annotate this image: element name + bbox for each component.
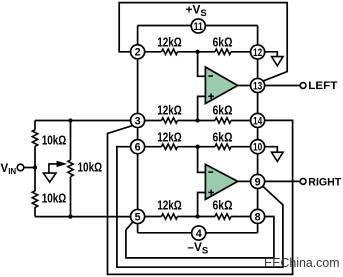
resistor R10 10k lower divider [32, 191, 66, 208]
wire: U2 output to pin 9 [238, 180, 258, 182]
svg-text:10kΩ: 10kΩ [42, 192, 67, 206]
wire: row 2 interconnect [145, 51, 251, 53]
wire: node 5 row to divider bottom rail [35, 216, 131, 218]
wire: U1 non-inverting input from row-3 tap [198, 96, 206, 120]
resistor R4 6k (row 3-14) [213, 104, 233, 124]
svg-text:12kΩ: 12kΩ [157, 199, 182, 213]
wire: divider branch column [34, 121, 36, 217]
ground (open triangle) at pin 12 [272, 57, 284, 66]
svg-text:IN: IN [8, 167, 16, 176]
node 14 [251, 113, 265, 127]
node 2 [131, 45, 145, 59]
junction pot bottom junction [68, 214, 72, 218]
resistor R7 12k (pins 5-?) [157, 199, 182, 220]
resistor R1 12k (pins 2-1) [157, 35, 182, 54]
terminal LEFT output [300, 80, 337, 92]
node 11 [191, 19, 205, 33]
op-amp U1 (left channel) [205, 67, 237, 104]
op-amp U2 (right channel) [205, 164, 237, 199]
svg-text:LEFT: LEFT [308, 80, 337, 92]
wire: U2 non-inverting input from row-5 tap [198, 193, 206, 217]
node 8 [251, 209, 265, 223]
junction row 2 tap [195, 50, 199, 54]
svg-text:12kΩ: 12kΩ [157, 104, 182, 118]
svg-text:10: 10 [253, 142, 262, 154]
svg-text:14: 14 [253, 115, 262, 127]
node 5 [131, 209, 145, 223]
wire: U1 output to pin 13 [238, 85, 258, 87]
wire: pin 9 feedback loop to node 6 [117, 147, 283, 268]
junction row 6 tap [195, 145, 199, 149]
svg-text:9: 9 [255, 176, 261, 188]
wire: potentiometer column [70, 121, 72, 217]
wire: row 5 interconnect [145, 216, 251, 218]
svg-text:6kΩ: 6kΩ [213, 199, 233, 213]
svg-text:10kΩ: 10kΩ [78, 161, 103, 175]
svg-text:13: 13 [253, 80, 262, 92]
svg-text:6kΩ: 6kΩ [213, 35, 233, 49]
junction VIN junction [33, 165, 37, 169]
wire: pin 14 feedback loop to node 3 [108, 120, 293, 274]
wire: U2 inverting input from row-6 tap [198, 147, 206, 173]
wire: +Vs supply rail [138, 25, 258, 27]
svg-text:12kΩ: 12kΩ [157, 131, 182, 145]
resistor R3 12k (pins 3-?) [157, 104, 182, 124]
svg-text:8: 8 [255, 211, 261, 223]
wire: VIN to divider [24, 167, 35, 169]
resistor R2 6k (pins 1-12) [213, 35, 233, 54]
node 3 [131, 113, 145, 127]
wire: U1 inverting input from row-2 tap [198, 52, 206, 77]
svg-text:10kΩ: 10kΩ [42, 134, 67, 148]
svg-text:+VS: +VS [186, 3, 207, 19]
terminal VIN input [1, 163, 24, 176]
svg-text:–VS: –VS [187, 240, 208, 256]
ground (open triangle) at pin 10 [272, 152, 284, 161]
svg-text:RIGHT: RIGHT [308, 176, 341, 188]
wire: outer feedback loop output 13 to input 2 [119, 3, 287, 81]
wire: pin 13 to LEFT terminal [258, 85, 301, 87]
resistor R6 6k (row 6-10) [213, 131, 233, 150]
wire: row 3 interconnect [145, 120, 251, 122]
wire: row 6 interconnect [145, 146, 251, 148]
svg-text:4: 4 [196, 228, 202, 240]
wire: -Vs supply rail [138, 232, 258, 234]
node 13 [251, 78, 265, 92]
potentiometer R11 10k balance [68, 160, 102, 177]
junction row 3 tap [195, 118, 199, 122]
resistor R9 10k upper divider [32, 130, 66, 148]
wire: right pin column 12-13-14-10-9-8 [257, 26, 259, 233]
svg-text:12kΩ: 12kΩ [157, 35, 182, 49]
svg-text:11: 11 [194, 21, 203, 33]
svg-text:EEChina.com: EEChina.com [264, 256, 340, 270]
svg-text:5: 5 [135, 211, 141, 223]
terminal RIGHT output [300, 176, 341, 188]
node 4 [192, 226, 206, 240]
resistor R5 12k (pins 6-7) [157, 131, 182, 150]
wire: pin 12 to signal ground [258, 52, 278, 57]
wire: pin 8 strap loop to node 5 [126, 217, 274, 258]
wire: pin 9 to RIGHT terminal [258, 180, 301, 182]
wire: pot wiper to ground [49, 164, 58, 173]
junction row 5 tap [195, 214, 199, 218]
node 6 [131, 140, 145, 154]
svg-text:6kΩ: 6kΩ [213, 104, 233, 118]
wiper arrow [57, 161, 68, 167]
svg-text:3: 3 [135, 115, 141, 127]
node 9 [251, 174, 265, 188]
resistor R8 6k (row 5-8) [213, 199, 233, 220]
wire: node 3 row to divider top rail [35, 120, 131, 122]
wire: left pin column 2-3-6-5 [137, 26, 139, 233]
svg-text:6: 6 [135, 142, 141, 154]
node 12 [251, 45, 265, 59]
ground (open triangle) at wiper [43, 173, 56, 182]
junction pot top junction [68, 118, 72, 122]
svg-text:12: 12 [253, 47, 262, 59]
svg-text:2: 2 [135, 47, 141, 59]
wire: pin 10 to signal ground [258, 147, 278, 153]
svg-text:6kΩ: 6kΩ [213, 131, 233, 145]
node 10 [251, 140, 265, 154]
